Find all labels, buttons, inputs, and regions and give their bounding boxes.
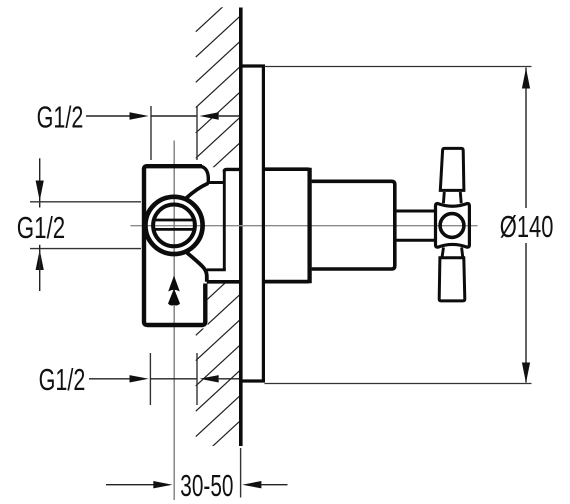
handle lower neck <box>442 247 463 257</box>
collar bottom edge <box>207 280 240 284</box>
body shelf bottom <box>207 268 226 271</box>
vertical port centerline <box>173 141 175 501</box>
handle upper arm <box>440 148 464 190</box>
dimension 30-50: arrow left <box>153 481 172 488</box>
dimension G1/2 bottom: tail right <box>219 378 240 380</box>
handle hub <box>436 204 470 248</box>
handle lower arm <box>439 258 465 301</box>
dimension D140: extension bottom <box>265 383 532 385</box>
cartridge housing <box>312 181 395 269</box>
dimension D140: text <box>500 209 554 244</box>
trim sleeve <box>264 169 310 281</box>
dimension G1/2 middle: arrow down <box>36 181 44 201</box>
flow direction arrow <box>168 276 180 292</box>
dimension G1/2 top: leader tail left <box>86 115 130 117</box>
wall hatching <box>196 0 241 487</box>
ring-to-shelf curve top <box>186 183 209 199</box>
svg-text:30-50: 30-50 <box>180 468 233 503</box>
dimension G1/2 middle: extension bottom <box>30 248 141 250</box>
dimension G1/2 middle: extension top <box>30 201 141 203</box>
body shelf top <box>208 181 226 184</box>
dimension D140: vertical line lower <box>525 243 527 383</box>
dimension G1/2 top: arrow right <box>200 112 219 119</box>
dimension G1/2 middle: vertical line upper <box>39 158 41 207</box>
dimension D140: arrow up <box>522 68 530 89</box>
dimension D140: arrow down <box>522 363 530 384</box>
dimension D140: vertical line upper <box>525 68 527 209</box>
collar top edge <box>224 169 239 171</box>
dimension G1/2 bottom: arrow right <box>200 375 219 382</box>
stem bottom line <box>396 239 435 242</box>
dimension G1/2 middle: text <box>17 210 65 244</box>
dimension G1/2 top: text <box>37 99 84 134</box>
ring-to-collar curve bottom <box>186 252 207 282</box>
dimension D140: extension top <box>265 66 532 68</box>
svg-text:G1/2: G1/2 <box>17 210 65 244</box>
dimension 30-50: tail right <box>261 484 287 486</box>
valve body <box>144 166 205 325</box>
dimension 30-50: tail left <box>106 484 154 486</box>
dimension 30-50: text <box>180 468 233 503</box>
dimension G1/2 bottom: tail left <box>89 378 130 380</box>
dimension G1/2 bottom: text <box>39 362 86 397</box>
port slot lines <box>155 219 194 222</box>
dimension G1/2 top: mid segment <box>151 115 197 117</box>
dimension G1/2 middle: vertical line lower <box>39 245 41 291</box>
sleeve right edge <box>307 168 311 283</box>
dimension G1/2 top: extension line 1 <box>150 106 152 160</box>
hub circle <box>440 214 464 238</box>
dimension G1/2 bottom: extension line 2 <box>196 353 198 405</box>
flange vertical edge <box>223 170 226 270</box>
wall face line <box>239 8 243 447</box>
inlet port outer ring <box>145 197 202 254</box>
dimension G1/2 top: tail right <box>219 115 240 117</box>
dimension G1/2 bottom: arrow left <box>130 375 149 382</box>
dimension G1/2 top: extension line 2 <box>196 106 198 160</box>
horizontal centerline <box>131 225 478 227</box>
dimension G1/2 bottom: mid segment <box>150 378 197 380</box>
svg-text:Ø140: Ø140 <box>500 209 554 244</box>
dimension G1/2 bottom: extension line 1 <box>149 353 151 405</box>
svg-text:G1/2: G1/2 <box>39 362 86 397</box>
dimension 30-50: extension right (wall) <box>240 448 242 498</box>
svg-text:G1/2: G1/2 <box>37 99 84 134</box>
dimension G1/2 top: arrow left <box>130 112 149 119</box>
escutcheon plate <box>241 66 263 381</box>
body top-right corner curve <box>201 166 208 182</box>
inlet port inner ring <box>153 205 195 247</box>
stem top line <box>396 210 435 213</box>
dimension G1/2 middle: arrow up <box>36 250 44 270</box>
dimension 30-50: arrow right <box>242 481 261 488</box>
handle upper neck <box>443 192 461 203</box>
